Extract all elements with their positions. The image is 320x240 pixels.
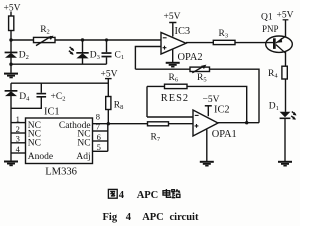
svg-text:−5V: −5V <box>203 95 220 105</box>
svg-text:LM336: LM336 <box>45 167 77 178</box>
svg-text:Q1: Q1 <box>261 12 273 22</box>
svg-text:PNP: PNP <box>262 24 279 34</box>
svg-text:4: 4 <box>119 190 125 201</box>
svg-text:3: 3 <box>16 134 20 144</box>
svg-text:R5: R5 <box>197 73 207 84</box>
svg-text:IC3: IC3 <box>175 26 191 37</box>
svg-text:APC: APC <box>142 212 164 223</box>
svg-text:+5V: +5V <box>164 12 181 22</box>
svg-text:OPA2: OPA2 <box>178 52 203 63</box>
svg-text:R3: R3 <box>219 29 229 40</box>
svg-text:8: 8 <box>96 112 100 122</box>
svg-text:R7: R7 <box>151 133 161 144</box>
svg-text:IC1: IC1 <box>44 107 60 118</box>
svg-text:R6: R6 <box>169 73 179 84</box>
svg-text:C1: C1 <box>115 51 125 62</box>
svg-text:4: 4 <box>16 144 21 154</box>
svg-text:D2: D2 <box>19 51 29 62</box>
svg-text:NC: NC <box>28 138 41 148</box>
svg-text:2: 2 <box>16 124 20 134</box>
svg-text:R2: R2 <box>40 25 50 36</box>
svg-text:D4: D4 <box>19 92 30 103</box>
svg-text:Anode: Anode <box>28 152 53 162</box>
svg-text:NC: NC <box>77 138 90 148</box>
svg-text:RES2: RES2 <box>161 93 189 104</box>
svg-text:R8: R8 <box>114 101 124 112</box>
svg-text:R4: R4 <box>268 69 278 80</box>
svg-text:5: 5 <box>97 142 101 152</box>
svg-text:7: 7 <box>96 122 100 132</box>
svg-text:+5V: +5V <box>101 69 118 79</box>
svg-text:1: 1 <box>16 114 20 124</box>
svg-text:+5V: +5V <box>277 11 294 21</box>
svg-text:OPA1: OPA1 <box>212 129 237 140</box>
svg-text:Adj: Adj <box>76 152 90 162</box>
svg-text:+5V: +5V <box>4 4 21 14</box>
svg-text:6: 6 <box>97 132 101 142</box>
svg-text:D3: D3 <box>90 51 100 62</box>
svg-text:D1: D1 <box>269 102 279 113</box>
svg-text:APC: APC <box>137 190 159 201</box>
svg-text:4: 4 <box>126 212 132 223</box>
svg-text:IC2: IC2 <box>214 105 230 116</box>
svg-text:Fig: Fig <box>103 212 118 223</box>
svg-text:+C2: +C2 <box>51 92 66 103</box>
svg-text:circuit: circuit <box>170 212 199 223</box>
